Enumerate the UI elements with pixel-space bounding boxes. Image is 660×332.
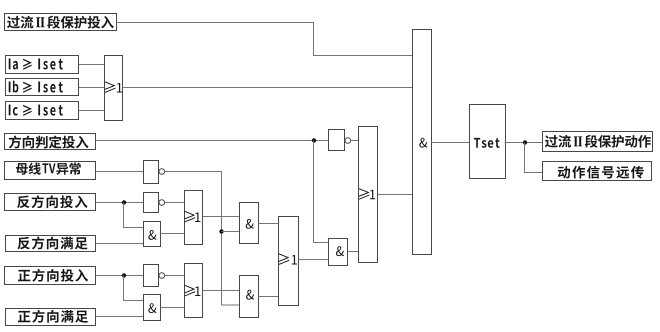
- AND gate A4 (forward direction &): [240, 276, 259, 318]
- wire NOT gate N1 output → AND gate A4 bottom input: [165, 172, 240, 306]
- NOT gate N4 (方向判定投入 inverter): [329, 130, 351, 151]
- wire AND gate A5 output → OR gate G5: [348, 251, 359, 253]
- output label box 动作信号远传: [543, 162, 652, 181]
- wire timer Tset output → 过流Ⅱ段保护动作: [505, 142, 543, 144]
- junction after timer Tset: [523, 140, 527, 144]
- NOT gate N3 (正方向投入 inverter): [144, 265, 165, 287]
- input label box 反方向投入: [5, 194, 96, 211]
- wire AND gate A2 output → OR gate G3: [161, 307, 185, 309]
- wire AND gate A1 output → OR gate G2: [161, 233, 185, 235]
- wire OR gate G3 output → AND gate A4 top input: [203, 290, 240, 292]
- wire AND gate A4 output → OR gate G4: [259, 296, 279, 298]
- AND gate A2 (正方向 &): [144, 295, 161, 321]
- junction on 正方向投入 wire: [122, 273, 126, 277]
- input label box 正方向满足: [6, 309, 96, 326]
- input label box Ia≥Iset: [6, 56, 79, 74]
- wire OR gate G4 output → AND gate A5 bottom input: [299, 259, 329, 261]
- OR gate G3 (正方向 ≥1): [184, 264, 202, 318]
- wire junction → AND gate A3 bottom input: [222, 231, 240, 233]
- output label box 过流Ⅱ段保护动作: [543, 132, 653, 152]
- input label box Ib≥Iset: [6, 79, 79, 96]
- OR gate G4 (direction ≥1): [279, 217, 299, 306]
- wire 正方向满足 → AND gate A2 bottom input: [96, 316, 144, 318]
- NOT gate N2 (反方向投入 inverter): [144, 193, 165, 213]
- wire 方向判定投入 → NOT gate N4: [96, 140, 329, 142]
- input label box 母线TV异常: [5, 162, 96, 180]
- AND gate A3 (reverse direction &): [240, 203, 259, 244]
- wire junction → AND gate A2 top input: [124, 276, 144, 301]
- input label box 过流Ⅱ段保护投入: [5, 14, 117, 31]
- junction on 方向判定投入 wire: [312, 138, 316, 142]
- OR gate G1 (≥1, phase overcurrent): [105, 56, 123, 121]
- wire Ic≥Iset → OR gate G1: [79, 110, 105, 112]
- AND gate A1 (反方向 &): [144, 222, 161, 247]
- input label box 反方向满足: [6, 236, 96, 252]
- OR gate G2 (反方向 ≥1): [184, 191, 202, 245]
- wire AND gate A6 output → timer Tset: [432, 142, 470, 144]
- wire junction → AND gate A5 top input: [314, 141, 329, 243]
- wire junction → AND gate A1 top input: [124, 203, 144, 228]
- wire 过流Ⅱ段保护投入 → AND gate A6 top input: [117, 23, 413, 56]
- input label box Ic≥Iset: [6, 102, 79, 120]
- OR gate G5 (direction release ≥1): [359, 127, 378, 263]
- wire AND gate A3 output → OR gate G4: [259, 223, 279, 225]
- input label box 正方向投入: [5, 267, 96, 285]
- junction on 反方向投入 wire: [122, 200, 126, 204]
- NOT gate N1 (母线TV异常 inverter): [144, 161, 165, 184]
- wire NOT gate N4 output → OR gate G5: [351, 140, 359, 142]
- input label box 方向判定投入: [5, 134, 96, 150]
- wire OR gate G2 output → AND gate A3 top input: [203, 216, 240, 218]
- AND gate A6 (main trip &): [413, 30, 432, 255]
- wire NOT gate N2 output → OR gate G2: [165, 202, 185, 204]
- wire NOT gate N3 output → OR gate G3: [165, 275, 185, 277]
- junction on TV异常 vertical wire: [219, 229, 223, 233]
- wire 母线TV异常 → NOT gate N1: [96, 171, 144, 173]
- wire 反方向满足 → AND gate A1 bottom input: [96, 243, 144, 245]
- wire Ia≥Iset → OR gate G1: [79, 64, 105, 66]
- wire junction → 动作信号远传: [525, 143, 543, 173]
- wire 反方向投入 → NOT gate N2: [96, 202, 144, 204]
- wire 正方向投入 → NOT gate N3: [96, 275, 144, 277]
- timer Tset: [470, 105, 506, 179]
- wire OR gate G5 output → AND gate A6 bottom input: [378, 194, 413, 196]
- AND gate A5 (direction check &): [329, 239, 348, 266]
- wire OR gate G1 output → AND gate A6: [123, 87, 413, 89]
- wire Ib≥Iset → OR gate G1: [79, 87, 105, 89]
